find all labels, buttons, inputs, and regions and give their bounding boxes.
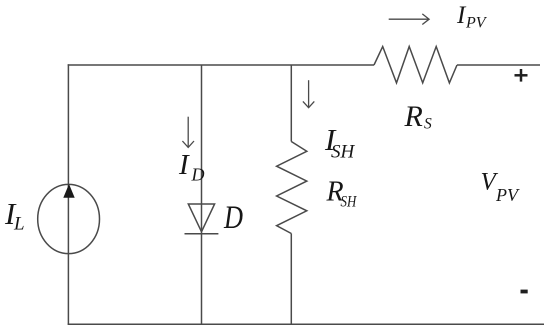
svg-text:SH: SH <box>341 194 357 211</box>
svg-text:SH: SH <box>331 141 356 162</box>
svg-text:D: D <box>191 165 205 185</box>
svg-text:I: I <box>178 149 190 181</box>
svg-text:S: S <box>424 116 432 133</box>
svg-text:R: R <box>404 100 423 133</box>
svg-text:D: D <box>223 200 243 236</box>
svg-text:PV: PV <box>495 185 520 205</box>
svg-text:L: L <box>13 214 25 235</box>
svg-text:PV: PV <box>465 14 488 31</box>
